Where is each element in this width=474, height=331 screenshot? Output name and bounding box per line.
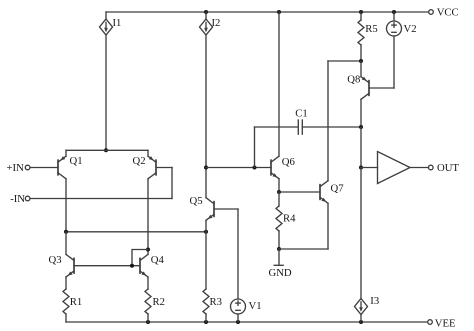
svg-text:R1: R1 <box>70 296 82 308</box>
svg-text:R3: R3 <box>210 296 222 308</box>
svg-text:R2: R2 <box>153 296 165 308</box>
svg-text:VEE: VEE <box>435 317 456 329</box>
svg-text:VCC: VCC <box>437 7 459 19</box>
svg-text:Q7: Q7 <box>331 182 345 194</box>
svg-text:Q3: Q3 <box>49 254 62 266</box>
svg-text:I3: I3 <box>370 295 379 307</box>
svg-text:Q5: Q5 <box>190 195 203 207</box>
svg-text:+IN: +IN <box>7 162 25 174</box>
svg-text:OUT: OUT <box>437 162 459 174</box>
svg-text:V2: V2 <box>404 23 417 35</box>
svg-text:I2: I2 <box>212 17 221 29</box>
svg-text:-IN: -IN <box>10 193 25 205</box>
svg-text:R5: R5 <box>365 23 377 35</box>
svg-text:Q2: Q2 <box>133 155 146 167</box>
svg-text:Q4: Q4 <box>151 254 165 266</box>
svg-text:C1: C1 <box>295 107 307 119</box>
svg-text:R4: R4 <box>283 213 296 225</box>
svg-text:V1: V1 <box>249 300 262 312</box>
svg-text:Q6: Q6 <box>282 156 296 168</box>
svg-text:GND: GND <box>269 267 292 279</box>
svg-text:Q8: Q8 <box>347 74 360 86</box>
svg-text:Q1: Q1 <box>70 155 83 167</box>
svg-text:I1: I1 <box>113 17 122 29</box>
